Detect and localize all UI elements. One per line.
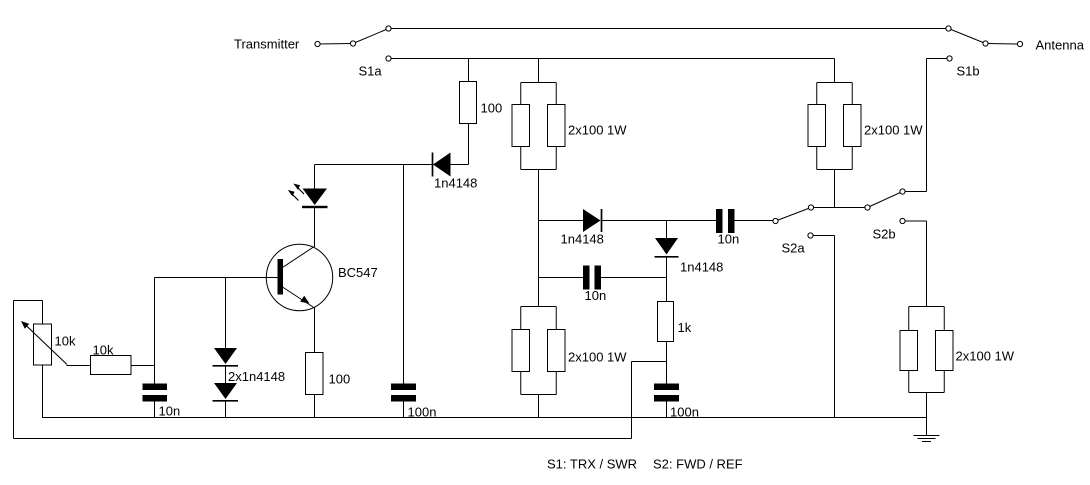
svg-text:1n4148: 1n4148 [561,232,604,247]
svg-text:10n: 10n [159,404,181,419]
svg-text:10k: 10k [55,334,76,349]
svg-text:S1b: S1b [957,64,980,79]
svg-text:S1a: S1a [359,64,383,79]
svg-text:S2a: S2a [782,241,806,256]
svg-text:100n: 100n [670,405,699,420]
svg-text:BC547: BC547 [338,265,378,280]
svg-text:100n: 100n [408,405,437,420]
svg-text:1k: 1k [678,320,692,335]
svg-text:2x100 1W: 2x100 1W [568,123,627,138]
svg-text:Antenna: Antenna [1036,38,1085,53]
svg-text:10k: 10k [93,343,114,358]
svg-text:S2: FWD / REF: S2: FWD / REF [653,457,743,472]
svg-text:S2b: S2b [873,227,896,242]
svg-text:100: 100 [329,372,351,387]
svg-text:2x100 1W: 2x100 1W [568,350,627,365]
svg-text:Transmitter: Transmitter [234,37,300,52]
svg-text:1n4148: 1n4148 [434,176,477,191]
svg-text:100: 100 [481,101,503,116]
svg-text:2x1n4148: 2x1n4148 [228,369,285,384]
svg-text:10n: 10n [718,232,740,247]
svg-text:S1: TRX / SWR: S1: TRX / SWR [547,457,637,472]
svg-text:10n: 10n [585,288,607,303]
svg-text:1n4148: 1n4148 [680,260,723,275]
svg-text:2x100 1W: 2x100 1W [864,123,923,138]
svg-text:2x100 1W: 2x100 1W [956,349,1015,364]
